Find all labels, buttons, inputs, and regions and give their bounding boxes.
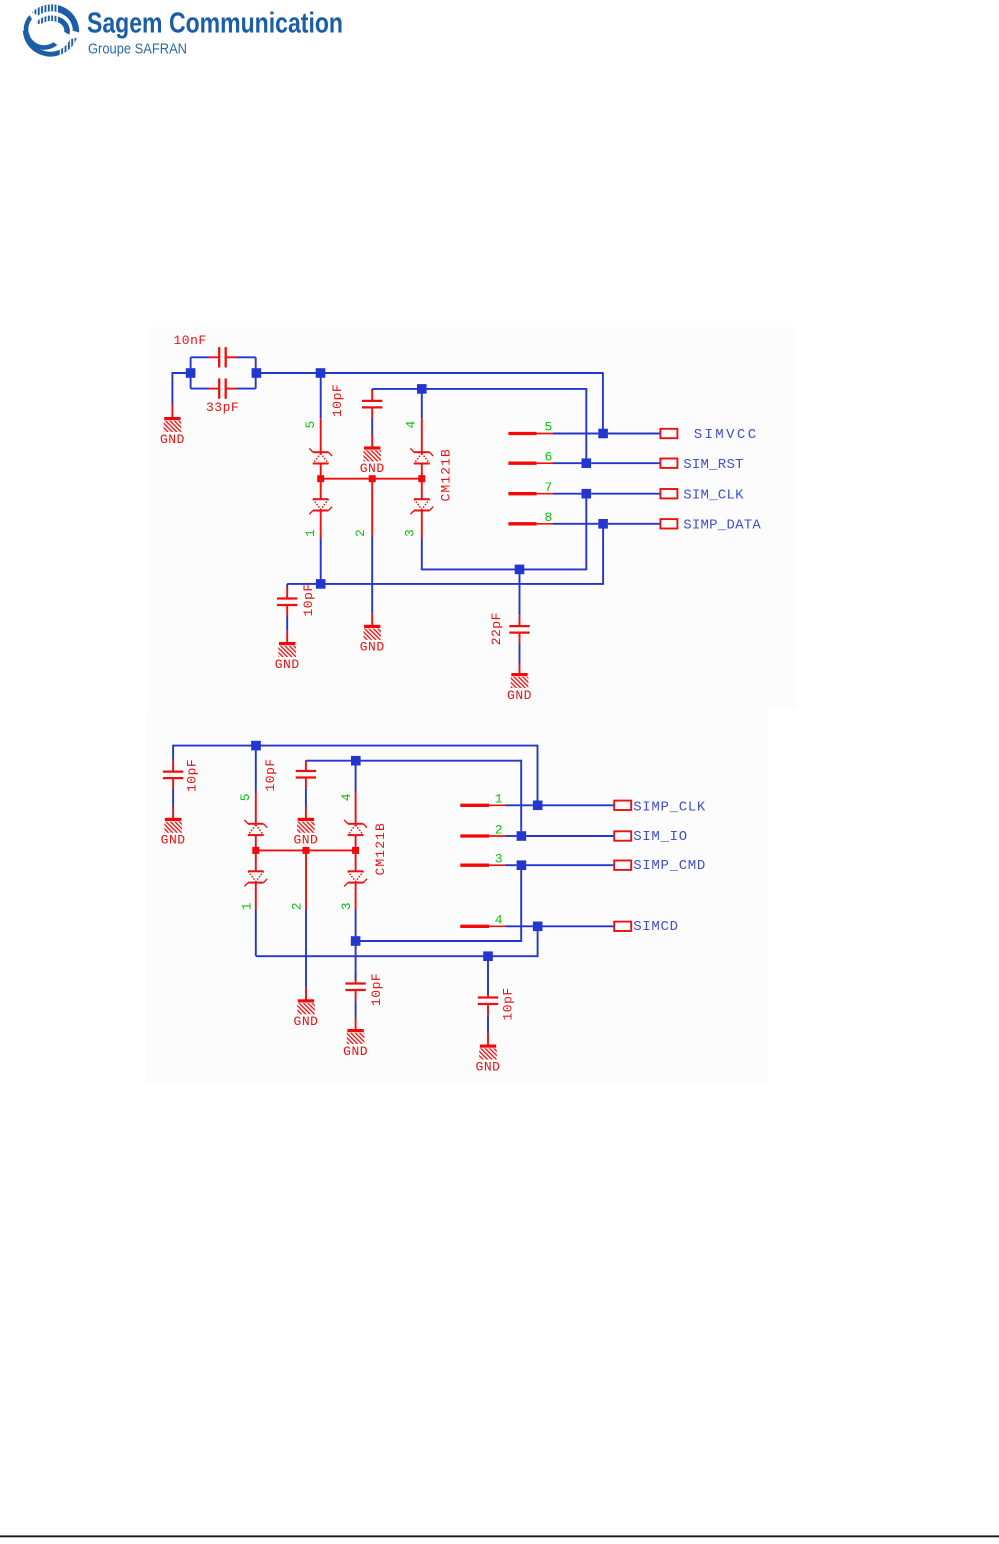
capacitor C4 10pF bbox=[277, 588, 297, 616]
svg-text:10pF: 10pF bbox=[301, 583, 316, 616]
svg-text:GND: GND bbox=[360, 461, 385, 476]
junction node 10pF bbox=[483, 951, 493, 961]
pin lead pin 6 (bold stub) bbox=[508, 462, 536, 465]
wire cap C9 to GND (blue) bbox=[487, 1015, 489, 1033]
pin lead pin 4 (bold stub) bbox=[460, 925, 489, 928]
pin lead pin 7 (bold stub) bbox=[508, 492, 536, 495]
wire GND drop (blue) bbox=[171, 372, 173, 404]
svg-text:2: 2 bbox=[495, 822, 503, 837]
svg-text:4: 4 bbox=[404, 421, 419, 429]
svg-text:5: 5 bbox=[303, 421, 318, 429]
junction pin7 bbox=[582, 489, 592, 499]
wire pin 7 to junction bbox=[553, 493, 582, 495]
wire branch 2 (blue) bbox=[371, 536, 373, 614]
svg-text:3: 3 bbox=[339, 902, 354, 910]
pin 4 lead (red) bbox=[355, 792, 357, 824]
junction pin4 bbox=[533, 922, 543, 932]
wire net SIM_IO top bbox=[306, 760, 521, 762]
ground G4 bbox=[360, 625, 385, 655]
wire branch 1b (blue) bbox=[255, 910, 257, 956]
wire pin6 to terminal bbox=[591, 462, 660, 464]
junction node branch 4 bbox=[417, 384, 427, 394]
junction node branch1 bottom bbox=[316, 579, 326, 589]
zener diode U2 D5 (top) bbox=[244, 820, 267, 835]
pin lead pin 2 (thin) bbox=[489, 835, 505, 837]
schematic panel background 2 bbox=[147, 710, 768, 1085]
svg-text:GND: GND bbox=[360, 640, 385, 655]
pin lead pin 1 (bold stub) bbox=[460, 804, 489, 807]
zener diode U1 D4 (top) bbox=[410, 448, 433, 463]
pin 5 lead (red) bbox=[255, 792, 257, 824]
junction node loop left bbox=[186, 368, 196, 378]
svg-text:GND: GND bbox=[275, 657, 300, 672]
wire pin 8 to junction bbox=[553, 523, 598, 525]
pin lead pin 5 (bold stub) bbox=[508, 432, 536, 435]
lead cap C9 GND (red) bbox=[487, 1033, 489, 1045]
wire pin 4 to junction bbox=[506, 925, 533, 927]
junction pin5 bbox=[598, 429, 608, 439]
svg-text:6: 6 bbox=[545, 449, 553, 464]
svg-text:2: 2 bbox=[289, 902, 304, 910]
ground H3 bbox=[294, 999, 319, 1029]
svg-text:1: 1 bbox=[240, 902, 255, 910]
pin lead pin 8 (thin) bbox=[537, 523, 553, 525]
wire pin2 to terminal bbox=[526, 835, 614, 837]
junction bus-branch2 bbox=[369, 475, 376, 482]
zener diode U2 D1 (bottom) bbox=[244, 871, 267, 886]
wire cap C2 to GND (blue) bbox=[371, 418, 373, 435]
wire pin 5 to junction bbox=[553, 433, 598, 435]
capacitor C2 10pF bbox=[362, 390, 382, 418]
ground H5 bbox=[476, 1045, 501, 1075]
lead diode to bus bbox=[320, 464, 322, 479]
wire net SIM_CLK bottom bbox=[422, 568, 587, 570]
svg-text:GND: GND bbox=[160, 432, 185, 447]
junction bus2-branch3 bbox=[352, 847, 359, 854]
pin lead pin 5 (thin) bbox=[537, 433, 553, 435]
pin lead pin 4 (thin) bbox=[489, 925, 505, 927]
junction node loop right bbox=[252, 368, 262, 378]
wire net SIM_IO right drop bbox=[520, 760, 522, 831]
junction bus-branch3 bbox=[418, 475, 425, 482]
Sagem logo swirl bbox=[16, 0, 89, 63]
wire net SIMP_CLK right drop bbox=[537, 745, 539, 801]
junction node branch3 bottom bbox=[351, 936, 361, 946]
wire pin 1 to junction bbox=[506, 804, 533, 806]
capacitor C7 10pF bbox=[296, 760, 316, 788]
zener diode U2 D4 (top) bbox=[344, 820, 367, 835]
lead diode to bus bbox=[255, 835, 257, 850]
svg-text:10pF: 10pF bbox=[330, 384, 345, 417]
junction pin6 bbox=[582, 458, 592, 468]
junction node branch 5b bbox=[251, 741, 261, 751]
lead 22pF GND (red) bbox=[519, 664, 521, 673]
lead bus to diode1 bbox=[255, 850, 257, 871]
svg-text:CM121B: CM121B bbox=[439, 448, 454, 501]
svg-text:8: 8 bbox=[545, 510, 553, 525]
wire cap C2 stub bbox=[371, 389, 373, 391]
capacitor 10nF bbox=[209, 347, 237, 367]
svg-text:GND: GND bbox=[294, 1014, 319, 1029]
ground G3 bbox=[275, 642, 300, 672]
lead cap C7 GND (red) bbox=[305, 807, 307, 819]
pin 3 lead (red) bbox=[355, 883, 357, 910]
terminal SIM_CLK bbox=[660, 489, 677, 498]
pin 3 lead (red) bbox=[421, 511, 423, 539]
pin lead pin 7 (thin) bbox=[537, 493, 553, 495]
schematic panel background 1 bbox=[148, 327, 797, 709]
pin lead pin 6 (thin) bbox=[537, 462, 553, 464]
wire net SIMCD bottom bbox=[256, 955, 538, 957]
wire branch 2b (blue) bbox=[305, 910, 307, 988]
wire net SIM_CLK right drop bbox=[585, 499, 587, 571]
wire pin 2 to junction bbox=[506, 835, 517, 837]
pin 4 lead (red) bbox=[421, 418, 423, 452]
capacitor C9 10pF bbox=[478, 987, 498, 1015]
lead bus to diode3 bbox=[355, 850, 357, 871]
ground G2 bbox=[360, 446, 385, 476]
svg-text:CM121B: CM121B bbox=[373, 822, 388, 875]
wire net SIMP_DATA right drop bbox=[602, 529, 604, 585]
wire 22pF to GND (blue) bbox=[519, 643, 521, 664]
wire loop top-left bbox=[191, 356, 209, 358]
lead cap C4 GND (red) bbox=[286, 631, 288, 643]
svg-text:1: 1 bbox=[495, 792, 503, 807]
wire loop left vertical bbox=[190, 357, 192, 388]
capacitor C6 10pF bbox=[163, 761, 183, 789]
wire cap C7 to GND (blue) bbox=[305, 788, 307, 806]
wire pin1 to terminal bbox=[543, 804, 615, 806]
svg-text:7: 7 bbox=[545, 480, 553, 495]
pin lead pin 3 (bold stub) bbox=[460, 864, 489, 867]
wire 22pF drop (blue) bbox=[519, 569, 521, 615]
ground H4 bbox=[343, 1029, 368, 1059]
ground G5 bbox=[507, 673, 532, 703]
pin lead pin 1 (thin) bbox=[489, 804, 505, 806]
wire loop right vertical bbox=[255, 357, 257, 388]
svg-text:10pF: 10pF bbox=[263, 758, 278, 791]
capacitor C5 22pF bbox=[509, 615, 529, 643]
junction pin1 bbox=[533, 801, 543, 811]
svg-text:SIM_RST: SIM_RST bbox=[683, 457, 744, 473]
lead cap C2 GND (red) bbox=[371, 435, 373, 447]
wire branch 5b (blue) bbox=[255, 746, 257, 792]
terminal SIMVCC bbox=[660, 429, 677, 438]
svg-text:5: 5 bbox=[545, 420, 553, 435]
svg-text:SIMVCC: SIMVCC bbox=[694, 427, 759, 443]
svg-text:10pF: 10pF bbox=[501, 987, 516, 1020]
svg-text:3: 3 bbox=[403, 529, 418, 537]
wire branch 1 (blue) bbox=[320, 538, 322, 584]
terminal SIMP_CLK bbox=[614, 801, 631, 810]
wire cap C4 stub bbox=[286, 584, 288, 588]
wire pin5 to terminal bbox=[608, 433, 661, 435]
svg-text:GND: GND bbox=[161, 833, 186, 848]
wire net SIM_RST top bbox=[372, 388, 586, 390]
wire cap C8 to GND (blue) bbox=[355, 1001, 357, 1018]
junction node 22pF bbox=[515, 565, 525, 575]
terminal SIMP_CMD bbox=[614, 861, 631, 870]
lead bus to diode1 bbox=[320, 479, 322, 500]
wire cap C6 to GND (blue) bbox=[172, 789, 174, 807]
pin lead pin 3 (thin) bbox=[489, 864, 505, 866]
junction node branch 4b bbox=[351, 756, 361, 766]
lead branch2 GND (red) bbox=[371, 614, 373, 625]
wire net SIMP_CLK top bbox=[173, 745, 537, 747]
terminal SIMCD bbox=[614, 922, 631, 931]
wire pin3 to terminal bbox=[526, 864, 614, 866]
zener diode U1 D3 (bottom) bbox=[410, 499, 433, 514]
junction node branch 5 bbox=[316, 368, 326, 378]
red common bus U2 bbox=[256, 849, 356, 851]
wire branch 3b (blue) bbox=[355, 910, 357, 941]
wire cap C8 drop (blue) bbox=[355, 941, 357, 980]
svg-text:4: 4 bbox=[339, 793, 354, 801]
wire pin7 to terminal bbox=[591, 493, 660, 495]
svg-text:22pF: 22pF bbox=[489, 612, 504, 645]
svg-text:2: 2 bbox=[353, 529, 368, 537]
svg-text:10nF: 10nF bbox=[174, 333, 207, 348]
svg-text:10pF: 10pF bbox=[184, 759, 199, 792]
wire cap C4 to GND (blue) bbox=[286, 616, 288, 631]
wire net SIMP_CMD right drop bbox=[520, 870, 522, 942]
svg-text:1: 1 bbox=[303, 529, 318, 537]
zener diode U1 D1 (bottom) bbox=[309, 499, 332, 514]
wire loop top-right bbox=[236, 356, 256, 358]
wire pin 3 to junction bbox=[506, 864, 517, 866]
pin lead pin 2 (bold stub) bbox=[460, 834, 489, 837]
wire loop bottom-left bbox=[191, 388, 209, 390]
svg-text:10pF: 10pF bbox=[369, 973, 384, 1006]
svg-text:SIMP_DATA: SIMP_DATA bbox=[683, 517, 761, 533]
junction pin2 bbox=[517, 831, 527, 841]
ground G1 bbox=[160, 417, 185, 447]
pin 2 lead (red) bbox=[305, 850, 307, 910]
pin 1 lead (red) bbox=[320, 511, 322, 539]
svg-text:GND: GND bbox=[507, 688, 532, 703]
wire net SIM_RST right drop bbox=[585, 388, 587, 459]
terminal SIMP_DATA bbox=[660, 519, 677, 528]
junction pin8 bbox=[598, 519, 608, 529]
wire net SIMP_CMD bottom bbox=[356, 940, 522, 942]
lead cap C8 GND (red) bbox=[355, 1018, 357, 1030]
svg-text:33pF: 33pF bbox=[206, 400, 239, 415]
pin 5 lead (red) bbox=[320, 418, 322, 452]
svg-text:Sagem Communication: Sagem Communication bbox=[87, 8, 343, 40]
wire cap C6 drop (blue) bbox=[172, 745, 174, 761]
terminal SIM_IO bbox=[614, 831, 631, 840]
wire pin 6 to junction bbox=[553, 462, 582, 464]
zener diode U1 D5 (top) bbox=[309, 448, 332, 463]
footer rule bbox=[0, 1535, 999, 1537]
svg-text:SIMCD: SIMCD bbox=[633, 919, 679, 935]
wire branch 4 (blue) bbox=[421, 394, 423, 419]
lead diode 4 to bus bbox=[355, 835, 357, 850]
lead branch2 GND (red) bbox=[305, 988, 307, 1000]
wire net SIMCD right drop bbox=[537, 931, 539, 957]
junction bus2-branch1 bbox=[252, 847, 259, 854]
svg-text:4: 4 bbox=[495, 913, 503, 928]
svg-text:Groupe SAFRAN: Groupe SAFRAN bbox=[88, 41, 187, 58]
wire branch 3 (blue) bbox=[421, 538, 423, 570]
ground H2 bbox=[293, 818, 318, 848]
terminal SIM_RST bbox=[660, 459, 677, 468]
junction bus2-branch2 bbox=[303, 847, 310, 854]
capacitor 33pF bbox=[209, 378, 237, 398]
pin 1 lead (red) bbox=[255, 883, 257, 910]
svg-text:SIM_CLK: SIM_CLK bbox=[683, 487, 744, 503]
ground H1 bbox=[161, 818, 186, 848]
lead bus to diode3 bbox=[421, 479, 423, 500]
svg-text:SIMP_CLK: SIMP_CLK bbox=[633, 799, 706, 815]
wire net SIMP_DATA bottom bbox=[287, 583, 603, 585]
red common bus U1 bbox=[321, 478, 422, 480]
svg-text:GND: GND bbox=[343, 1044, 368, 1059]
wire net SIMVCC right drop bbox=[602, 372, 604, 429]
wire pin4 to terminal bbox=[543, 925, 615, 927]
svg-text:5: 5 bbox=[238, 793, 253, 801]
zener diode U2 D3 (bottom) bbox=[344, 871, 367, 886]
wire pin8 to terminal bbox=[608, 523, 661, 525]
svg-text:GND: GND bbox=[293, 833, 318, 848]
capacitor C8 10pF bbox=[345, 973, 365, 1001]
junction pin3 bbox=[517, 860, 527, 870]
wire loop bottom-right bbox=[236, 388, 256, 390]
lead cap C6 GND (red) bbox=[172, 807, 174, 819]
svg-text:SIMP_CMD: SIMP_CMD bbox=[633, 858, 706, 874]
wire cap C9 drop (blue) bbox=[487, 956, 489, 994]
lead GND drop (red) bbox=[171, 405, 173, 418]
lead diode 4 to bus bbox=[421, 464, 423, 479]
svg-text:GND: GND bbox=[476, 1059, 501, 1074]
wire branch 4b (blue) bbox=[355, 766, 357, 792]
svg-text:3: 3 bbox=[495, 852, 503, 867]
pin lead pin 8 (bold stub) bbox=[508, 522, 536, 525]
wire net SIMVCC top bbox=[256, 372, 603, 374]
wire branch 5 (blue) bbox=[320, 373, 322, 418]
svg-text:SIM_IO: SIM_IO bbox=[633, 829, 688, 845]
junction bus-branch1 bbox=[317, 475, 324, 482]
pin 2 lead (red) bbox=[371, 479, 373, 536]
wire stub to GND branch bbox=[172, 372, 190, 374]
